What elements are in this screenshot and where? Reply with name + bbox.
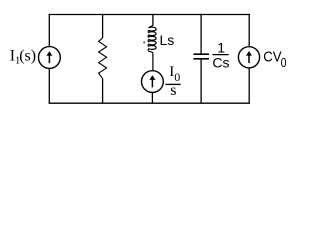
node blue dot xyxy=(143,41,145,43)
wire resistor branch top xyxy=(102,14,104,38)
wire inductor branch top xyxy=(152,14,154,26)
resistor R xyxy=(99,38,107,79)
capacitor plate bottom xyxy=(193,58,209,60)
svg-text:Ls: Ls xyxy=(160,32,175,48)
svg-text:Cs: Cs xyxy=(212,54,229,70)
svg-text:CV: CV xyxy=(263,49,281,66)
wire inductor branch bottom xyxy=(151,93,153,104)
current source CV0 xyxy=(238,47,259,68)
wire capacitor branch bottom xyxy=(200,59,202,103)
wire right branch bottom xyxy=(248,68,250,103)
svg-text:s: s xyxy=(170,82,176,99)
svg-text:I1(s): I1(s) xyxy=(10,48,36,67)
wire left branch bottom xyxy=(48,68,50,103)
svg-text:0: 0 xyxy=(281,55,287,70)
wire bottom rail xyxy=(49,102,250,104)
capacitor plate top xyxy=(193,53,209,55)
wire resistor branch bottom xyxy=(102,79,104,104)
wire left branch top xyxy=(48,14,50,47)
wire right branch top xyxy=(248,14,250,47)
wire capacitor branch top xyxy=(200,14,202,54)
current source I0/s xyxy=(142,71,164,93)
current source I1(s) xyxy=(39,47,61,69)
svg-text:1: 1 xyxy=(217,39,225,55)
wire top rail xyxy=(49,14,250,16)
inductor Ls xyxy=(148,25,156,51)
wire inductor tail xyxy=(149,51,153,71)
